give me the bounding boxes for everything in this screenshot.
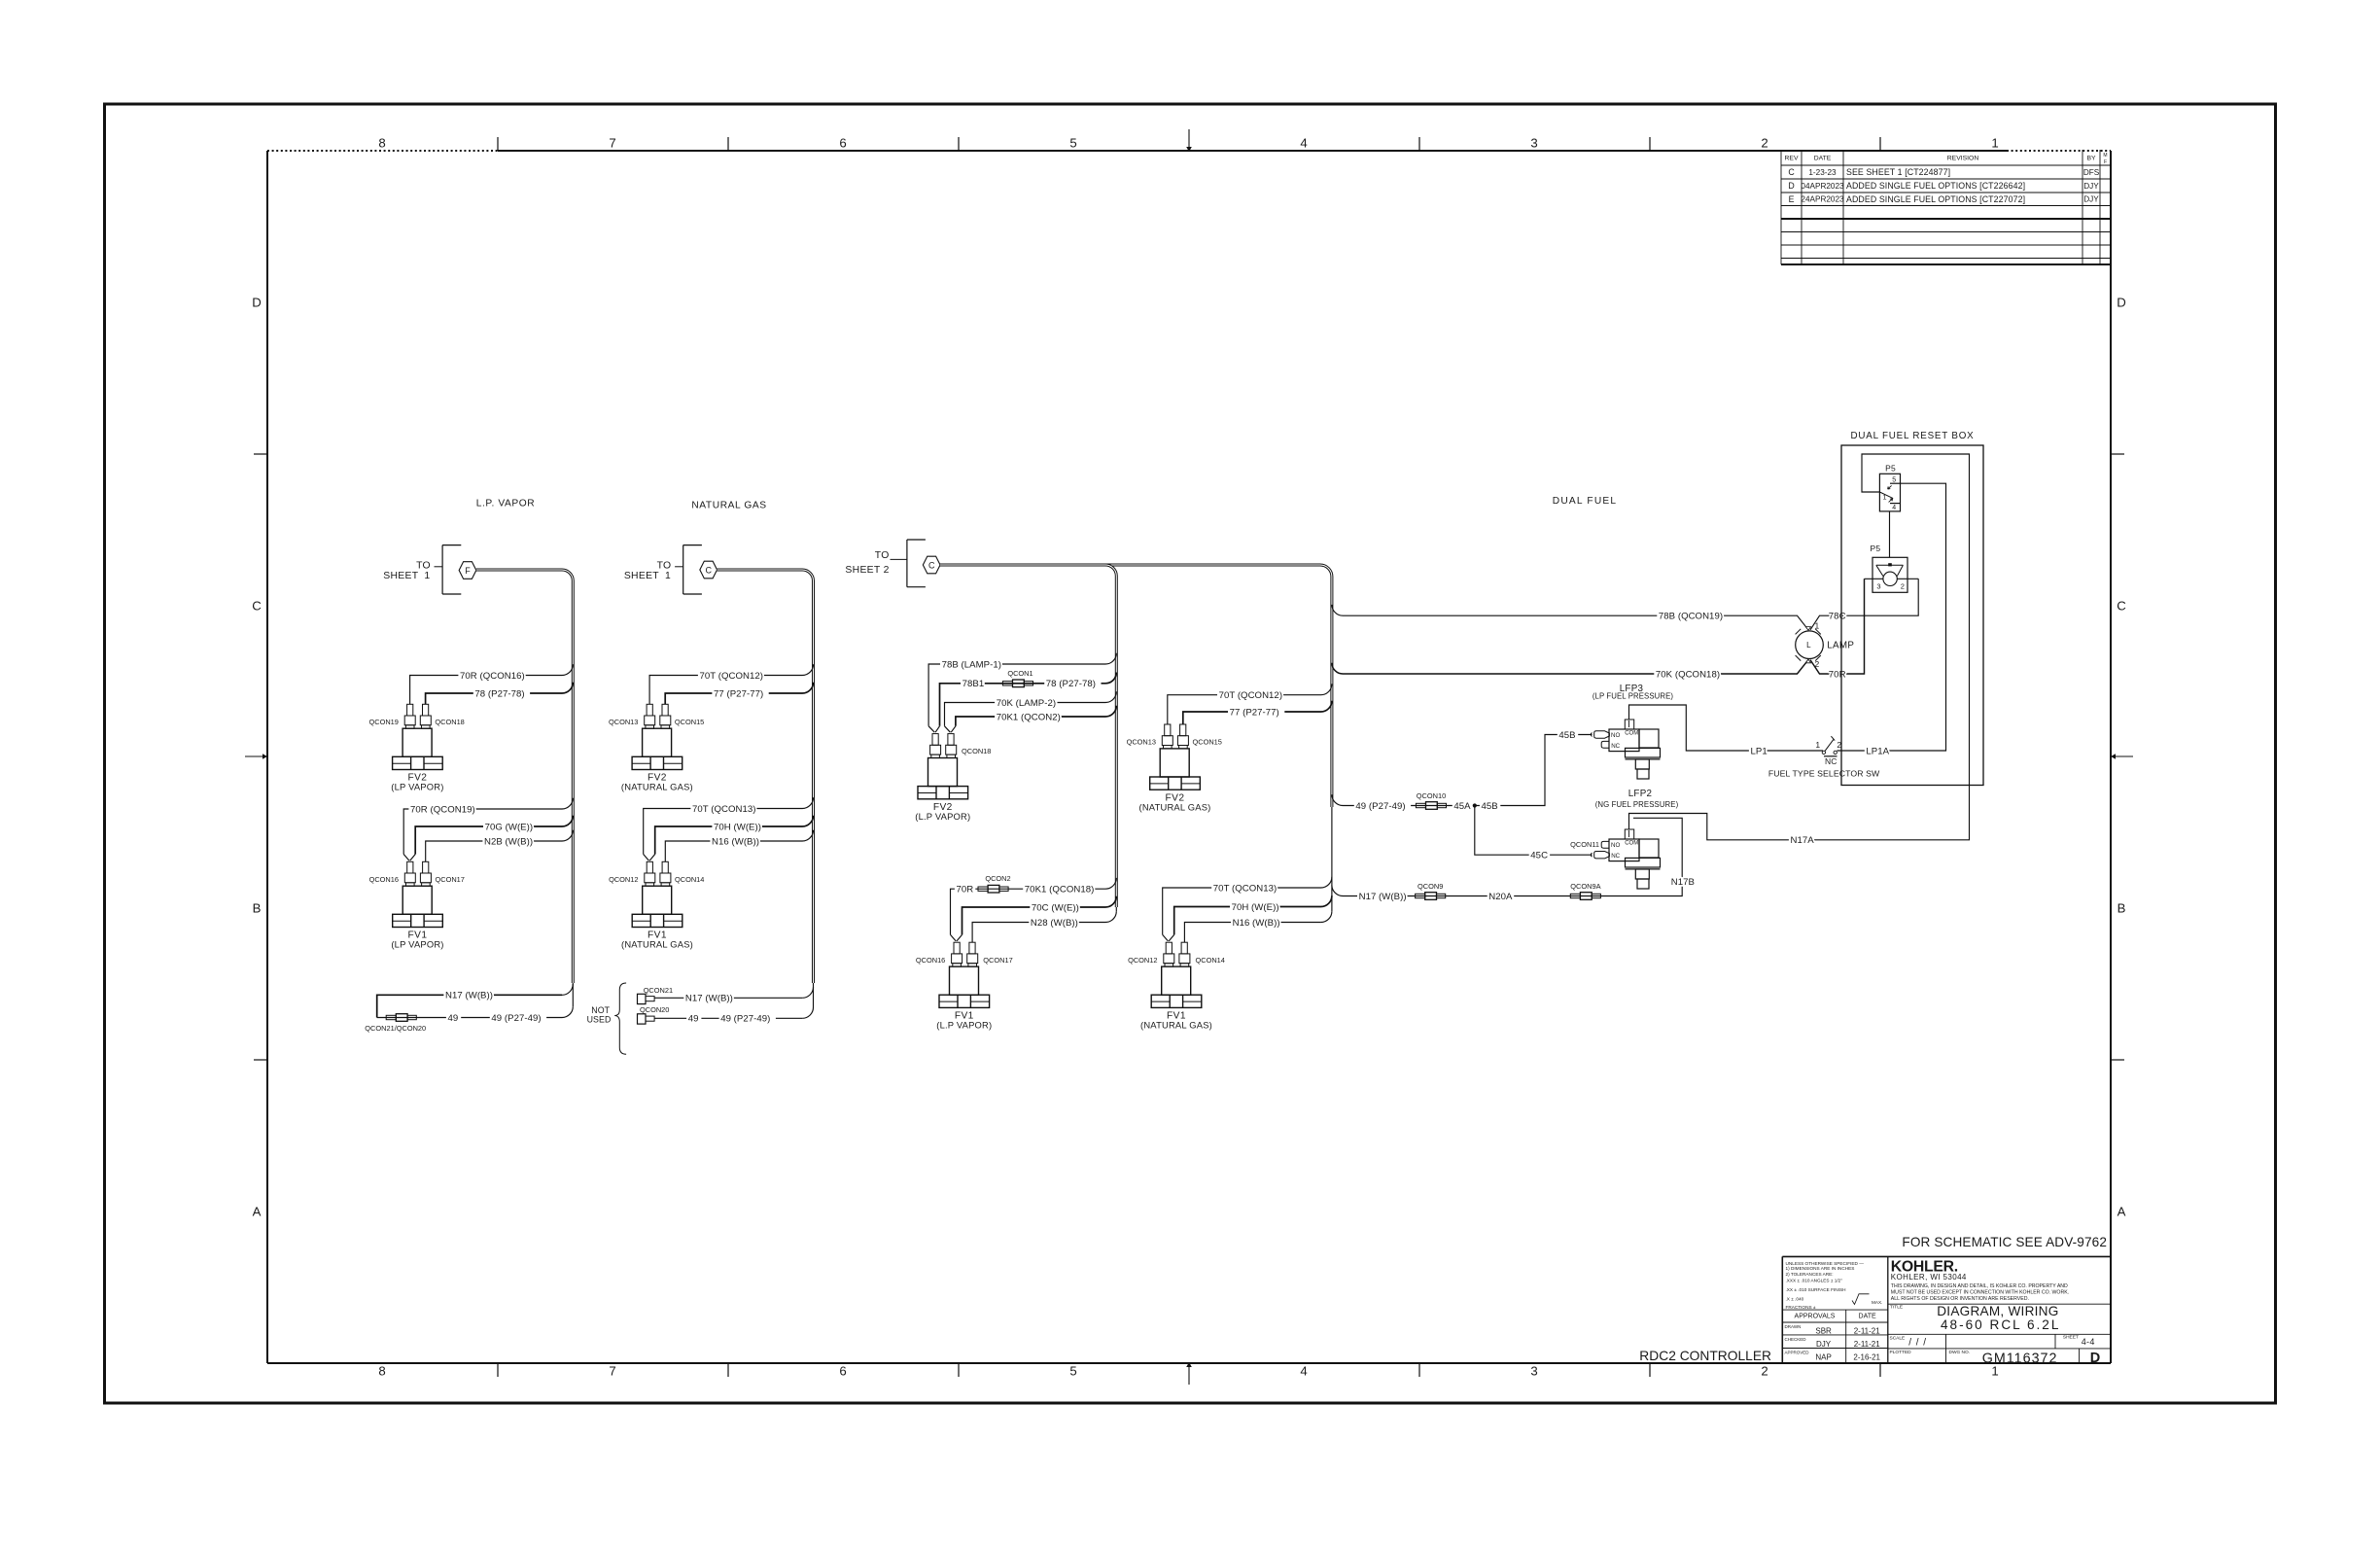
svg-text:APPROVED: APPROVED bbox=[1785, 1351, 1810, 1355]
svg-text:(L.P VAPOR): (L.P VAPOR) bbox=[915, 811, 970, 822]
svg-text:1: 1 bbox=[1883, 495, 1887, 502]
svg-text:2: 2 bbox=[884, 565, 890, 576]
svg-text:7: 7 bbox=[609, 1364, 615, 1379]
svg-text:QCON9: QCON9 bbox=[1417, 882, 1443, 891]
svg-text:ALL RIGHTS OF DESIGN OR INVENT: ALL RIGHTS OF DESIGN OR INVENTION ARE RE… bbox=[1891, 1296, 2029, 1302]
svg-text:8: 8 bbox=[378, 1364, 385, 1379]
svg-text:QCON9A: QCON9A bbox=[1570, 882, 1600, 891]
svg-text:77 (P27-77): 77 (P27-77) bbox=[714, 688, 763, 699]
wire LP1 from LFP3 COM to selector switch bbox=[1629, 705, 1824, 756]
svg-text:70K (LAMP-2): 70K (LAMP-2) bbox=[997, 698, 1056, 709]
wire P5 reset pin3 to 70R bbox=[1865, 578, 1883, 579]
wire 70T (QCON12) bbox=[649, 664, 813, 704]
svg-text:N20A: N20A bbox=[1488, 892, 1513, 902]
svg-text:QCON13: QCON13 bbox=[1127, 738, 1156, 747]
fuel valve FV1 (NATURAL GAS, dual fuel) bbox=[1128, 934, 1225, 1030]
svg-text:4: 4 bbox=[1300, 136, 1307, 151]
wire 78B (LAMP-1) bbox=[928, 653, 1116, 726]
svg-text:49: 49 bbox=[448, 1013, 459, 1024]
svg-text:MUST NOT BE USED EXCEPT IN CON: MUST NOT BE USED EXCEPT IN CONNECTION WI… bbox=[1891, 1290, 2069, 1296]
svg-text:70R (QCON16): 70R (QCON16) bbox=[460, 671, 525, 682]
off-sheet connector F (TO SHEET 1, L.P. VAPOR) bbox=[383, 545, 476, 594]
svg-text:70T (QCON13): 70T (QCON13) bbox=[1213, 883, 1277, 894]
wire 77 (P27-77) bbox=[665, 683, 813, 705]
svg-text:70H (W(E)): 70H (W(E)) bbox=[1232, 902, 1279, 913]
svg-text:REV: REV bbox=[1785, 155, 1799, 161]
svg-text:C: C bbox=[705, 565, 712, 575]
svg-text:70C (W(E)): 70C (W(E)) bbox=[1032, 902, 1079, 913]
harness bundle (L.P. VAPOR) bbox=[476, 570, 573, 1018]
svg-text:DFS: DFS bbox=[2083, 168, 2100, 177]
svg-text:TO: TO bbox=[875, 550, 890, 561]
wire 78B1 / 78 (P27-78) bbox=[940, 673, 1117, 726]
svg-text:4: 4 bbox=[1300, 1364, 1307, 1379]
svg-text:RDC2 CONTROLLER: RDC2 CONTROLLER bbox=[1639, 1349, 1771, 1363]
svg-text:A: A bbox=[2117, 1205, 2126, 1219]
svg-text:DUAL FUEL RESET BOX: DUAL FUEL RESET BOX bbox=[1851, 431, 1975, 441]
fuel valve FV1 (NATURAL GAS) bbox=[609, 855, 704, 950]
svg-text:2) TOLERANCES ARE:: 2) TOLERANCES ARE: bbox=[1786, 1272, 1834, 1277]
svg-text:NATURAL GAS: NATURAL GAS bbox=[691, 501, 766, 511]
svg-text:78B (QCON19): 78B (QCON19) bbox=[1659, 612, 1723, 622]
svg-text:BY: BY bbox=[2086, 155, 2096, 161]
svg-text:70T (QCON12): 70T (QCON12) bbox=[700, 671, 763, 682]
svg-text:45B: 45B bbox=[1482, 801, 1498, 812]
svg-text:78B1: 78B1 bbox=[962, 679, 985, 689]
wire 70T (QCON13) dual bbox=[1163, 877, 1332, 935]
svg-text:USED: USED bbox=[587, 1014, 612, 1024]
fuel valve FV1 (LP VAPOR) bbox=[369, 855, 465, 950]
svg-text:DIAGRAM, WIRING: DIAGRAM, WIRING bbox=[1937, 1304, 2058, 1318]
svg-text:78B (LAMP-1): 78B (LAMP-1) bbox=[942, 659, 1001, 670]
svg-text:45A: 45A bbox=[1453, 801, 1471, 812]
svg-text:C: C bbox=[928, 560, 935, 570]
harness bundle (NATURAL GAS) bbox=[717, 570, 814, 1018]
svg-text:70K (QCON18): 70K (QCON18) bbox=[1656, 669, 1720, 680]
svg-text:SCALE: SCALE bbox=[1890, 1336, 1906, 1342]
svg-text:QCON11: QCON11 bbox=[1570, 840, 1599, 849]
svg-text:49 (P27-49): 49 (P27-49) bbox=[720, 1014, 770, 1025]
wire 70K (QCON18) / 70R to lamp and P5 bbox=[1332, 579, 1865, 680]
svg-text:(L.P VAPOR): (L.P VAPOR) bbox=[936, 1020, 992, 1031]
fuel valve FV2 (NATURAL GAS) bbox=[609, 704, 704, 791]
svg-text:DJY: DJY bbox=[1816, 1340, 1832, 1349]
svg-text:77 (P27-77): 77 (P27-77) bbox=[1230, 707, 1279, 718]
connector QCON20 (not used) bbox=[638, 1005, 670, 1024]
svg-text:QCON20: QCON20 bbox=[640, 1005, 669, 1014]
svg-text:TITLE: TITLE bbox=[1890, 1304, 1903, 1310]
svg-text:2: 2 bbox=[1761, 136, 1767, 151]
wire 49 (P27-49) L.P. vapor bbox=[377, 1013, 562, 1024]
wire 45C bbox=[1475, 806, 1592, 861]
svg-text:(LP VAPOR): (LP VAPOR) bbox=[391, 782, 443, 792]
svg-text:(NATURAL GAS): (NATURAL GAS) bbox=[1139, 801, 1211, 812]
svg-text:(LP FUEL PRESSURE): (LP FUEL PRESSURE) bbox=[1592, 692, 1674, 701]
section title NATURAL GAS bbox=[691, 501, 766, 511]
section title L.P. VAPOR bbox=[476, 499, 536, 509]
svg-text:DATE: DATE bbox=[1859, 1314, 1876, 1320]
svg-text:KOHLER, WI 53044: KOHLER, WI 53044 bbox=[1891, 1273, 1967, 1282]
fuel valve FV1 (L.P VAPOR, dual fuel) bbox=[916, 934, 1013, 1030]
wire 70H (W(E)) dual bbox=[1174, 895, 1332, 934]
svg-text:FOR SCHEMATIC SEE ADV-9762: FOR SCHEMATIC SEE ADV-9762 bbox=[1902, 1235, 2107, 1249]
svg-text:QCON15: QCON15 bbox=[675, 718, 704, 726]
svg-text:70G (W(E)): 70G (W(E)) bbox=[485, 822, 534, 832]
svg-text:QCON10: QCON10 bbox=[1417, 791, 1446, 800]
svg-text:QCON12: QCON12 bbox=[609, 875, 638, 884]
wire N2B (W(B)) bbox=[426, 830, 574, 862]
wire N17 (W(B)) L.P. vapor bbox=[377, 991, 562, 1018]
svg-text:4-4: 4-4 bbox=[2082, 1337, 2095, 1347]
svg-text:NC: NC bbox=[1825, 756, 1837, 766]
connector P5 (latch) bbox=[1879, 463, 1900, 511]
wire 77 (P27-77) dual bbox=[1183, 701, 1332, 724]
svg-text:QCON21/QCON20: QCON21/QCON20 bbox=[365, 1024, 426, 1033]
wire 70C (W(E)) bbox=[962, 896, 1117, 935]
svg-text:DRAWN: DRAWN bbox=[1785, 1324, 1802, 1329]
svg-text:SHEET: SHEET bbox=[383, 571, 418, 581]
wire N16 (W(B)) dual bbox=[1184, 918, 1320, 942]
svg-text:70R (QCON19): 70R (QCON19) bbox=[410, 804, 475, 815]
svg-text:QCON17: QCON17 bbox=[436, 875, 465, 884]
svg-text:4: 4 bbox=[1892, 505, 1896, 511]
fuel valve FV2 (NATURAL GAS, dual fuel) bbox=[1127, 724, 1222, 812]
wire P5 pin4 to P5 reset bbox=[1889, 511, 1891, 557]
svg-text:CHECKED: CHECKED bbox=[1785, 1337, 1807, 1342]
svg-text:70T (QCON12): 70T (QCON12) bbox=[1219, 690, 1282, 701]
svg-text:DATE: DATE bbox=[1814, 155, 1832, 161]
svg-text:D: D bbox=[252, 296, 262, 310]
svg-text:C: C bbox=[1788, 167, 1795, 177]
svg-text:QCON13: QCON13 bbox=[609, 718, 638, 726]
off-sheet connector C (TO SHEET 1, NATURAL GAS) bbox=[624, 545, 717, 594]
svg-text:2-11-21: 2-11-21 bbox=[1854, 1327, 1881, 1336]
dual fuel reset box bbox=[1841, 431, 1983, 786]
selector switch NC (FUEL TYPE SELECTOR SW) bbox=[1768, 736, 1880, 779]
wire 70G (W(E)) bbox=[415, 816, 573, 855]
svg-text:N16 (W(B)): N16 (W(B)) bbox=[1233, 918, 1280, 929]
svg-text:F: F bbox=[2104, 159, 2107, 165]
svg-text:LP1A: LP1A bbox=[1866, 746, 1889, 756]
svg-text:DJY: DJY bbox=[2083, 182, 2099, 191]
svg-text:8: 8 bbox=[378, 136, 385, 151]
svg-text:78 (P27-78): 78 (P27-78) bbox=[474, 688, 524, 699]
wire 78 (P27-78) bbox=[426, 683, 574, 705]
svg-text:C: C bbox=[252, 599, 262, 614]
inline connector QCON1 bbox=[1002, 669, 1032, 687]
svg-text:SBR: SBR bbox=[1815, 1327, 1832, 1336]
wire LP1A to P5 pin 5 bbox=[1837, 483, 1945, 756]
section title DUAL FUEL bbox=[1553, 496, 1617, 507]
svg-text:24APR2023: 24APR2023 bbox=[1801, 195, 1844, 204]
harness bundle (DUAL FUEL, trunk and left branch) bbox=[940, 565, 1332, 923]
svg-text:70K1 (QCON18): 70K1 (QCON18) bbox=[1025, 885, 1095, 895]
svg-text:(NG FUEL PRESSURE): (NG FUEL PRESSURE) bbox=[1595, 800, 1679, 809]
svg-text:N17A: N17A bbox=[1791, 835, 1815, 846]
svg-text:2: 2 bbox=[1761, 1364, 1767, 1379]
svg-text:N17B: N17B bbox=[1671, 877, 1695, 888]
inline connector QCON2 bbox=[978, 874, 1011, 893]
svg-text:QCON18: QCON18 bbox=[962, 747, 991, 755]
svg-text:SHEET: SHEET bbox=[624, 571, 659, 581]
svg-text:D: D bbox=[2117, 296, 2126, 310]
svg-text:(LP VAPOR): (LP VAPOR) bbox=[391, 939, 443, 950]
wire 70K (LAMP-2) bbox=[945, 691, 1117, 726]
wire 70R (QCON16) bbox=[410, 664, 574, 704]
wire 70K1 (QCON2) bbox=[956, 706, 1116, 726]
svg-text:N17 (W(B)): N17 (W(B)) bbox=[1359, 892, 1407, 902]
svg-text:70R: 70R bbox=[1829, 669, 1846, 680]
svg-text:QCON1: QCON1 bbox=[1007, 669, 1032, 678]
svg-text:QCON18: QCON18 bbox=[435, 718, 464, 726]
pressure switch LFP2 (NG FUEL PRESSURE) bbox=[1570, 789, 1678, 889]
svg-text:7: 7 bbox=[609, 136, 615, 151]
wire N17A from LFP2 COM to reset box bbox=[1629, 454, 1970, 846]
svg-text:B: B bbox=[2117, 901, 2126, 916]
svg-text:P5: P5 bbox=[1885, 463, 1896, 473]
svg-text:QCON14: QCON14 bbox=[675, 875, 704, 884]
svg-text:N16 (W(B)): N16 (W(B)) bbox=[712, 836, 759, 847]
svg-text:49 (P27-49): 49 (P27-49) bbox=[491, 1013, 541, 1024]
svg-text:GM116372: GM116372 bbox=[1982, 1352, 2058, 1367]
svg-text:70H (W(E)): 70H (W(E)) bbox=[714, 822, 761, 832]
svg-text:LP1: LP1 bbox=[1751, 746, 1767, 756]
inline connector QCON9 bbox=[1416, 882, 1446, 899]
svg-text:FRACTIONS ±: FRACTIONS ± bbox=[1786, 1305, 1816, 1310]
fuel valve FV2 (LP VAPOR) bbox=[368, 704, 464, 791]
svg-text:D: D bbox=[1788, 181, 1794, 191]
svg-text:6: 6 bbox=[839, 1364, 846, 1379]
junction node 45A/45B bbox=[1473, 803, 1477, 807]
off-sheet connector C (TO SHEET 2, DUAL FUEL) bbox=[845, 540, 940, 587]
svg-text:APPROVALS: APPROVALS bbox=[1795, 1314, 1836, 1320]
svg-text:THIS DRAWING, IN DESIGN AND DE: THIS DRAWING, IN DESIGN AND DETAIL, IS K… bbox=[1891, 1283, 2068, 1289]
svg-text:DJY: DJY bbox=[2083, 195, 2099, 204]
wire N17 (W(B)) / N20A / N17B bbox=[1332, 818, 1695, 902]
svg-text:QCON16: QCON16 bbox=[916, 956, 945, 965]
svg-text:6: 6 bbox=[839, 136, 846, 151]
svg-text:1) DIMENSIONS ARE IN INCHES: 1) DIMENSIONS ARE IN INCHES bbox=[1786, 1266, 1855, 1271]
svg-text:N17 (W(B)): N17 (W(B)) bbox=[445, 991, 493, 1001]
harness bundle (DUAL FUEL, right branch) bbox=[1321, 577, 1332, 923]
svg-text:PLOTTED: PLOTTED bbox=[1890, 1350, 1912, 1355]
svg-text:F: F bbox=[465, 566, 471, 576]
svg-text:(NATURAL GAS): (NATURAL GAS) bbox=[621, 939, 693, 950]
svg-text:5: 5 bbox=[1069, 1364, 1076, 1379]
svg-text:48-60 RCL 6.2L: 48-60 RCL 6.2L bbox=[1941, 1317, 2060, 1332]
svg-text:LAMP: LAMP bbox=[1827, 640, 1854, 650]
wire N17 (W(B)) natural gas bbox=[654, 994, 802, 1004]
svg-text:5: 5 bbox=[1069, 136, 1076, 151]
wire 70R / 70K1 (QCON18) bbox=[951, 878, 1117, 935]
svg-text:D: D bbox=[2090, 1351, 2100, 1366]
svg-text:NAP: NAP bbox=[1815, 1353, 1831, 1362]
svg-text:(NATURAL GAS): (NATURAL GAS) bbox=[621, 782, 693, 792]
svg-text:1: 1 bbox=[424, 571, 430, 581]
svg-text:78C: 78C bbox=[1829, 612, 1846, 622]
svg-text:L: L bbox=[1806, 641, 1811, 650]
svg-text:45C: 45C bbox=[1530, 851, 1548, 861]
svg-text:N28 (W(B)): N28 (W(B)) bbox=[1031, 918, 1078, 929]
svg-text:N2B (W(B)): N2B (W(B)) bbox=[484, 836, 533, 847]
svg-text:3: 3 bbox=[1530, 136, 1537, 151]
NOT USED brace bbox=[587, 983, 627, 1054]
svg-text:49 (P27-49): 49 (P27-49) bbox=[1355, 801, 1405, 812]
svg-text:49: 49 bbox=[688, 1014, 699, 1025]
wire 70H (W(E)) bbox=[655, 816, 814, 855]
svg-text:SHEET: SHEET bbox=[2063, 1335, 2079, 1341]
svg-text:70K1 (QCON2): 70K1 (QCON2) bbox=[997, 712, 1061, 722]
svg-text:QCON16: QCON16 bbox=[369, 875, 399, 884]
svg-text:2-16-21: 2-16-21 bbox=[1853, 1353, 1880, 1362]
svg-text:QCON21: QCON21 bbox=[644, 986, 673, 995]
wire 49 (P27-49) natural gas bbox=[654, 1014, 802, 1025]
svg-text:.XX ± .010 SURFACE FI: .XX ± .010 SURFACE FINISH bbox=[1786, 1287, 1846, 1292]
svg-text:QCON14: QCON14 bbox=[1196, 956, 1225, 965]
svg-text:1: 1 bbox=[1815, 740, 1820, 750]
svg-text:3: 3 bbox=[1530, 1364, 1537, 1379]
wire P5 reset pin2 to 78C bbox=[1897, 578, 1918, 579]
wire N28 (W(B)) bbox=[972, 918, 1105, 942]
svg-text:A: A bbox=[253, 1205, 262, 1219]
svg-text:B: B bbox=[253, 901, 262, 916]
svg-text:QCON19: QCON19 bbox=[368, 718, 398, 726]
connector QCON21 (not used) bbox=[638, 986, 674, 1004]
svg-text:3: 3 bbox=[1876, 582, 1880, 591]
svg-text:LFP2: LFP2 bbox=[1628, 789, 1653, 799]
svg-text:L.P. VAPOR: L.P. VAPOR bbox=[476, 499, 536, 509]
svg-text:1: 1 bbox=[1991, 136, 1998, 151]
svg-text:45B: 45B bbox=[1558, 730, 1575, 741]
svg-text:78 (P27-78): 78 (P27-78) bbox=[1046, 679, 1096, 689]
svg-text:DUAL FUEL: DUAL FUEL bbox=[1553, 496, 1617, 507]
svg-text:REVISION: REVISION bbox=[1947, 155, 1979, 161]
svg-text:QCON12: QCON12 bbox=[1128, 956, 1157, 965]
wire N16 (W(B)) bbox=[665, 830, 813, 862]
wire 78B (QCON19) / 78C to lamp and P5 bbox=[1332, 579, 1918, 630]
svg-text:5: 5 bbox=[1892, 476, 1896, 483]
svg-text:(NATURAL GAS): (NATURAL GAS) bbox=[1140, 1020, 1212, 1031]
svg-text:04APR2023: 04APR2023 bbox=[1801, 182, 1844, 191]
pressure switch LFP3 (LP FUEL PRESSURE) bbox=[1591, 684, 1673, 779]
svg-text:70T (QCON13): 70T (QCON13) bbox=[692, 804, 755, 815]
lamp L bbox=[1796, 621, 1855, 670]
svg-text:SHEET: SHEET bbox=[845, 565, 880, 576]
svg-text:1: 1 bbox=[665, 571, 671, 581]
svg-text:.XXX ± .010 ANGLES ± 1: .XXX ± .010 ANGLES ± 1/2° bbox=[1786, 1279, 1843, 1283]
svg-text:2: 2 bbox=[1901, 582, 1905, 591]
svg-text:QCON15: QCON15 bbox=[1193, 738, 1222, 747]
svg-text:C: C bbox=[2117, 599, 2126, 614]
svg-text:1-23-23: 1-23-23 bbox=[1808, 168, 1837, 177]
inline connector QCON9A bbox=[1570, 882, 1600, 899]
svg-text:2-11-21: 2-11-21 bbox=[1854, 1340, 1881, 1349]
svg-text:QCON2: QCON2 bbox=[985, 874, 1010, 883]
svg-text:N17 (W(B)): N17 (W(B)) bbox=[685, 994, 733, 1004]
svg-text:P5: P5 bbox=[1871, 544, 1881, 553]
svg-text:.X ± .040: .X ± .040 bbox=[1786, 1297, 1804, 1302]
svg-text:DWG NO.: DWG NO. bbox=[1949, 1350, 1971, 1355]
inline connector QCON10 bbox=[1416, 791, 1446, 810]
svg-text:M: M bbox=[2103, 153, 2107, 158]
svg-text:70R: 70R bbox=[957, 885, 974, 895]
svg-text:/ / /: / / / bbox=[1908, 1338, 1927, 1349]
wire 70T (QCON13) bbox=[644, 797, 814, 854]
svg-text:FUEL TYPE SELECTOR SW: FUEL TYPE SELECTOR SW bbox=[1768, 769, 1880, 779]
svg-text:QCON17: QCON17 bbox=[983, 956, 1012, 965]
wire 49 (P27-49) / 45A / 45B dual bbox=[1332, 730, 1592, 812]
svg-text:E: E bbox=[1789, 194, 1795, 204]
connector P5 (reset button) bbox=[1871, 544, 1907, 593]
svg-text:ADDED SINGLE FUEL OPTIONS [CT2: ADDED SINGLE FUEL OPTIONS [CT227072] bbox=[1846, 194, 2025, 204]
splice QCON21/QCON20 bbox=[365, 1014, 426, 1034]
svg-text:ADDED SINGLE FUEL OPTIONS [CT2: ADDED SINGLE FUEL OPTIONS [CT226642] bbox=[1846, 181, 2025, 191]
wire 70T (QCON12) dual bbox=[1168, 684, 1332, 724]
svg-text:SEE SHEET 1 [CT224877]: SEE SHEET 1 [CT224877] bbox=[1846, 167, 1950, 177]
fuel valve FV2 (L.P VAPOR, dual fuel) bbox=[915, 726, 991, 822]
svg-text:MAX.: MAX. bbox=[1872, 1300, 1882, 1305]
wire 70R (QCON19) bbox=[403, 798, 573, 855]
